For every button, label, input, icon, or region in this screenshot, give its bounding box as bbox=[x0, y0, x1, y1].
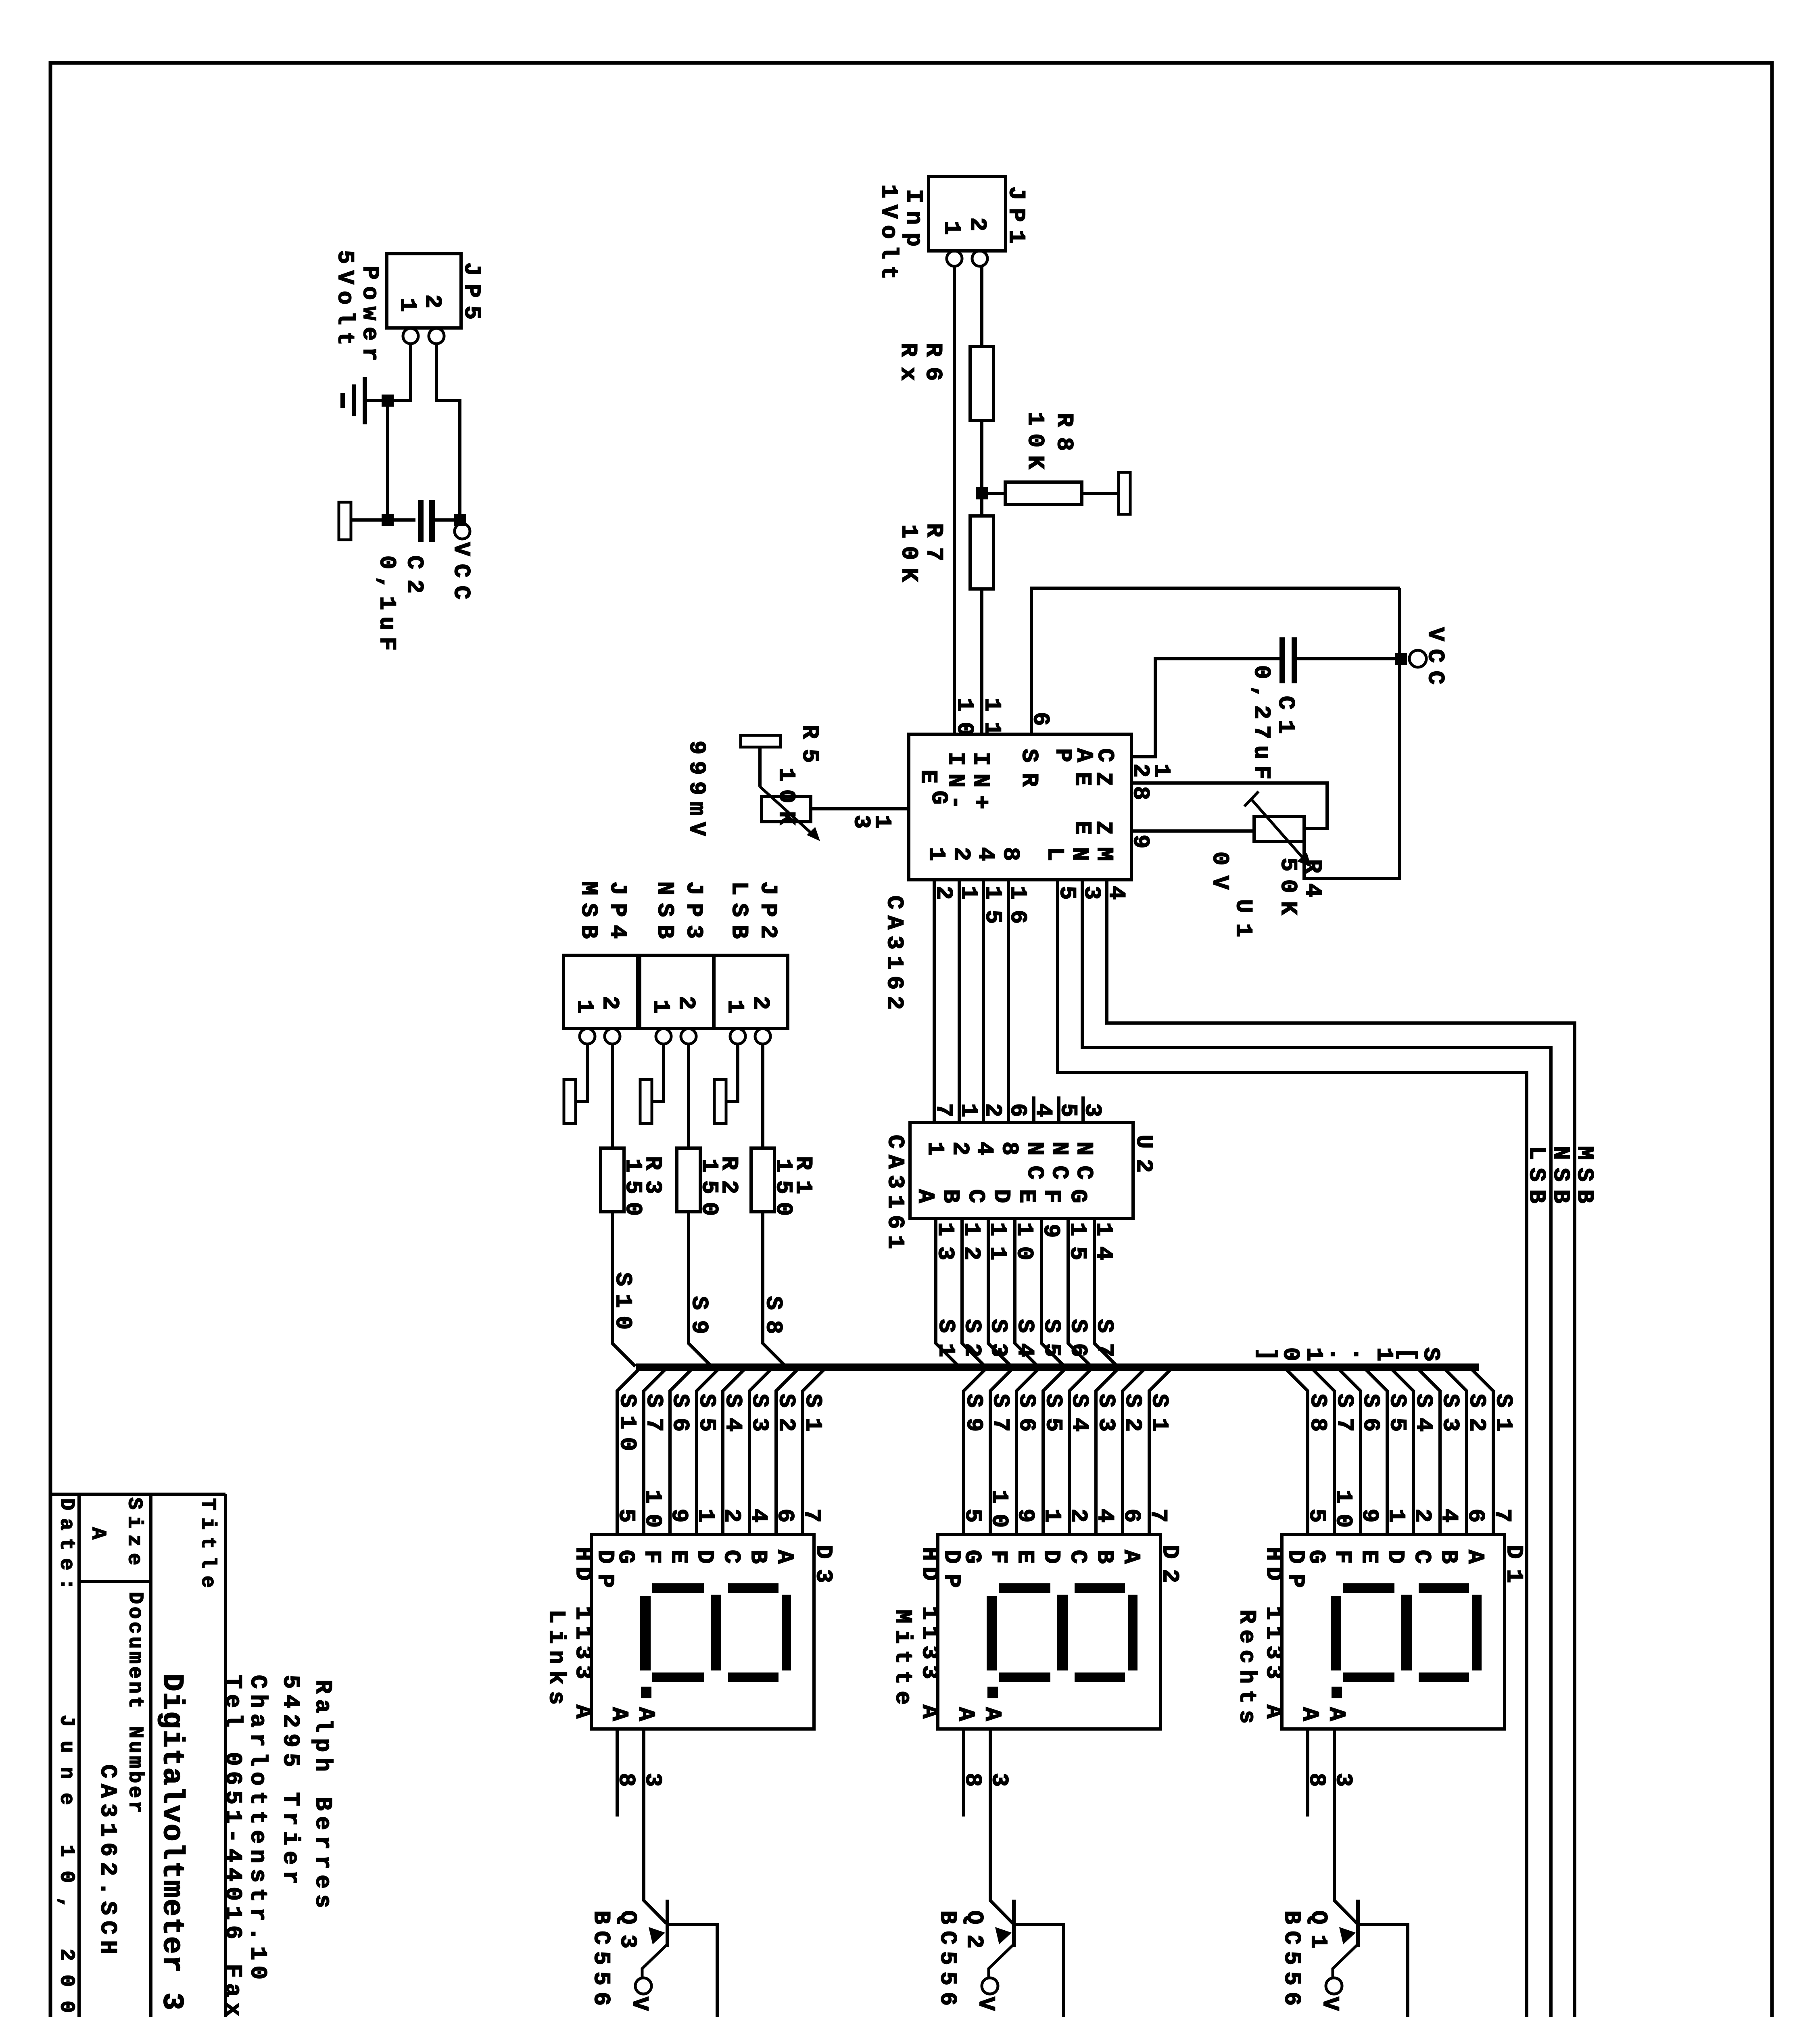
svg-text:6: 6 bbox=[772, 1509, 797, 1522]
svg-text:9: 9 bbox=[1037, 1224, 1063, 1238]
svg-text:4: 4 bbox=[1030, 1103, 1056, 1117]
wire U2 pin 3 NC stub bbox=[1081, 1096, 1085, 1123]
svg-text:3: 3 bbox=[1079, 1103, 1105, 1117]
svg-text:9: 9 bbox=[1127, 835, 1153, 848]
potentiometer R4 50K bbox=[1244, 791, 1325, 915]
label Q2 BC556 bbox=[934, 1911, 987, 2006]
svg-text:10K: 10K bbox=[773, 768, 799, 825]
svg-text:C: C bbox=[962, 1189, 988, 1203]
svg-text:JP4: JP4 bbox=[604, 881, 630, 939]
power VCC bbox=[448, 524, 474, 599]
junction R7 R8 bbox=[976, 487, 988, 499]
svg-text:B: B bbox=[937, 1189, 963, 1203]
transistor Q2 BC556 bbox=[982, 1900, 1064, 2017]
svg-text:5: 5 bbox=[613, 1509, 639, 1522]
wire U2 pin 11 net S3 to bus bbox=[988, 1219, 1011, 1366]
connector JP5 bbox=[387, 254, 484, 344]
wire U2 pin 15 net S6 to bus bbox=[1068, 1219, 1091, 1366]
svg-text:0: 0 bbox=[1277, 1347, 1303, 1361]
svg-text:5: 5 bbox=[1303, 1509, 1329, 1522]
svg-text:150: 150 bbox=[770, 1159, 796, 1216]
label Q3 BC556 bbox=[588, 1911, 640, 2006]
wire S7 bus to D1 pin 10 bbox=[1311, 1368, 1334, 1535]
svg-text:1: 1 bbox=[1039, 1509, 1064, 1522]
svg-text:E: E bbox=[665, 1550, 691, 1564]
wire S4 bus to D2 pin 2 bbox=[1069, 1368, 1092, 1535]
wire S10 bus to D3 pin 5 bbox=[617, 1368, 640, 1535]
svg-text:B: B bbox=[1435, 1550, 1461, 1564]
svg-text:A: A bbox=[606, 1707, 632, 1721]
svg-text:2: 2 bbox=[1127, 764, 1153, 777]
svg-text:.: . bbox=[1347, 1347, 1373, 1361]
label Q1 BC556 bbox=[1278, 1911, 1331, 2006]
capacitor C2 0,1uF bbox=[374, 500, 460, 651]
svg-text:JP5: JP5 bbox=[458, 262, 484, 319]
svg-text:1: 1 bbox=[692, 1509, 718, 1522]
wire U1 pin 13 to R5 bbox=[811, 807, 909, 810]
svg-text:C: C bbox=[1064, 1550, 1090, 1564]
svg-text:1: 1 bbox=[571, 1000, 597, 1013]
resistor R6 Rx bbox=[895, 343, 993, 420]
wire JP1 pin2 to R6 bbox=[980, 266, 983, 347]
svg-text:D: D bbox=[1382, 1550, 1408, 1564]
wire S3 bus to D2 pin 4 bbox=[1096, 1368, 1119, 1535]
wire JP5 pin2 to VCC node bbox=[436, 344, 460, 520]
svg-text:]: ] bbox=[1254, 1347, 1279, 1361]
wire U2 pin 5 NC stub bbox=[1057, 1096, 1060, 1123]
svg-text:Document Number: Document Number bbox=[123, 1592, 146, 1813]
svg-text:M: M bbox=[1091, 847, 1117, 861]
wire U1 pin 8 to R4 wiper bbox=[1131, 783, 1327, 829]
wire U2 pin 12 net S2 to bus bbox=[962, 1219, 985, 1366]
connector JP3 bbox=[640, 955, 714, 1044]
wire S4 bus to D3 pin 2 bbox=[723, 1368, 746, 1535]
svg-text:7: 7 bbox=[930, 1103, 956, 1117]
svg-text:9: 9 bbox=[666, 1509, 691, 1522]
svg-text:HD 1133 A: HD 1133 A bbox=[1260, 1547, 1286, 1719]
label JP3 NSB bbox=[651, 881, 706, 939]
op-amp U1 CA3162 A/D converter bbox=[909, 734, 1131, 880]
wire JP1 pin1 to U1 pin 10 bbox=[953, 266, 956, 734]
wire U2 pin 14 net S7 to bus bbox=[1094, 1219, 1117, 1366]
svg-text:B: B bbox=[1091, 1550, 1117, 1564]
resistor R8 10K bbox=[982, 412, 1119, 505]
display D1 HD 1133 A bbox=[1282, 1535, 1505, 1729]
svg-text:8: 8 bbox=[1303, 1773, 1329, 1787]
wire BCD 2 U1 pin1 to U2 pin1 bbox=[958, 880, 961, 1123]
svg-text:A: A bbox=[912, 1189, 938, 1203]
svg-text:1: 1 bbox=[1300, 1347, 1326, 1361]
svg-text:2: 2 bbox=[1409, 1509, 1435, 1522]
wire JP5 pin1 to ground node bbox=[388, 344, 411, 401]
svg-text:JP2: JP2 bbox=[755, 881, 781, 939]
resistor R3 150 bbox=[601, 1148, 665, 1216]
svg-text:VCC: VCC bbox=[1422, 627, 1448, 685]
transistor Q3 BC556 bbox=[635, 1900, 717, 2017]
display D3 HD 1133 A bbox=[591, 1535, 814, 1729]
ground bbox=[340, 377, 388, 424]
label Power 5Volt bbox=[332, 250, 382, 361]
terminal stub JP4 bbox=[564, 1079, 576, 1123]
svg-text:VCC: VCC bbox=[448, 542, 474, 599]
resistor R7 10K bbox=[895, 516, 993, 589]
svg-text:MSB: MSB bbox=[575, 881, 601, 939]
svg-text:6: 6 bbox=[1027, 712, 1053, 726]
svg-text:NSB: NSB bbox=[651, 881, 677, 939]
svg-text:F: F bbox=[985, 1550, 1011, 1564]
svg-text:2: 2 bbox=[1065, 1509, 1091, 1522]
svg-text:10K: 10K bbox=[895, 524, 921, 582]
potentiometer R5 10K bbox=[760, 725, 822, 841]
wire JP3 pin1 to stub bbox=[652, 1044, 664, 1102]
svg-text:.: . bbox=[1324, 1347, 1350, 1361]
svg-text:150: 150 bbox=[696, 1159, 722, 1216]
wire NSB net U1 pin3 to Q2 base bbox=[1064, 880, 1551, 2017]
svg-text:1: 1 bbox=[1383, 1509, 1409, 1522]
wire MSB net U1 pin4 to Q3 base bbox=[717, 880, 1575, 2017]
svg-text:B: B bbox=[745, 1550, 770, 1564]
wire R7 to U1 pin 11 bbox=[980, 589, 983, 734]
wire S9 bus to D2 pin 5 bbox=[964, 1368, 987, 1535]
svg-text:A: A bbox=[86, 1527, 109, 1539]
svg-text:S10: S10 bbox=[609, 1272, 635, 1330]
svg-text:150: 150 bbox=[620, 1159, 645, 1216]
wire JP4 pin2 to R3 bbox=[611, 1044, 614, 1148]
terminal stub power bbox=[339, 502, 388, 540]
wire S1 bus to D2 pin 7 bbox=[1149, 1368, 1172, 1535]
svg-text:2: 2 bbox=[718, 1509, 744, 1522]
svg-text:NSB: NSB bbox=[1547, 1146, 1573, 1203]
wire JP2 pin2 to R1 bbox=[761, 1044, 764, 1148]
wire S1 bus to D3 pin 7 bbox=[803, 1368, 826, 1535]
wire U1 pin 12 to C1 bbox=[1131, 659, 1279, 757]
svg-text:LSB: LSB bbox=[1523, 1146, 1549, 1203]
wire segment bus bbox=[636, 1363, 1479, 1371]
wire D1 pin 8 stub bbox=[1306, 1729, 1309, 1817]
svg-text:4: 4 bbox=[972, 847, 998, 861]
wire U2 pin 10 net S4 to bus bbox=[1015, 1219, 1038, 1366]
svg-text:C: C bbox=[1409, 1550, 1434, 1564]
wire LSB net U1 pin5 to Q1 base bbox=[1058, 880, 1527, 2017]
svg-text:F: F bbox=[1329, 1550, 1355, 1564]
svg-text:3: 3 bbox=[639, 1773, 665, 1787]
transistor Q1 BC556 bbox=[1326, 1900, 1408, 2017]
svg-text:1: 1 bbox=[938, 221, 964, 235]
svg-text:D: D bbox=[988, 1189, 1014, 1203]
svg-text:3: 3 bbox=[1330, 1773, 1356, 1787]
wire JP4 pin1 to stub bbox=[576, 1044, 587, 1102]
svg-text:F: F bbox=[1038, 1189, 1064, 1203]
note address block bbox=[219, 1675, 335, 2017]
wire S5 bus to D1 pin 1 bbox=[1364, 1368, 1387, 1535]
wire S2 bus to D3 pin 6 bbox=[776, 1368, 799, 1535]
wire U2 pin 9 net S5 to bus bbox=[1041, 1219, 1064, 1366]
svg-text:G: G bbox=[925, 791, 951, 804]
terminal stub R5 wiper bbox=[741, 735, 781, 787]
wire S3 bus to D3 pin 4 bbox=[749, 1368, 772, 1535]
wire BCD 1 U1 pin2 to U2 pin7 bbox=[933, 880, 936, 1123]
svg-text:HD 1133 A: HD 1133 A bbox=[916, 1547, 942, 1719]
svg-text:[: [ bbox=[1394, 1347, 1420, 1361]
svg-text:L: L bbox=[1041, 847, 1067, 861]
svg-text:P: P bbox=[1050, 748, 1075, 762]
svg-text:Digitalvoltmeter 3 Stellig: Digitalvoltmeter 3 Stellig bbox=[155, 1674, 188, 2017]
wire S6 bus to D1 pin 9 bbox=[1338, 1368, 1361, 1535]
svg-text:A: A bbox=[1118, 1550, 1144, 1564]
capacitor C1 0,27uF bbox=[1248, 637, 1298, 779]
svg-text:A: A bbox=[1296, 1707, 1322, 1721]
svg-text:C: C bbox=[718, 1550, 744, 1564]
svg-text:D: D bbox=[691, 1550, 717, 1564]
svg-text:E: E bbox=[915, 770, 941, 783]
svg-text:E: E bbox=[1356, 1550, 1382, 1564]
wire R6 to junction bbox=[980, 420, 983, 516]
wire D3 pin 3 to Q3 collector bbox=[644, 1729, 666, 1923]
wire ground node to C2 bbox=[388, 401, 415, 520]
svg-text:LSB: LSB bbox=[726, 881, 751, 939]
svg-text:5: 5 bbox=[959, 1509, 985, 1522]
decimal point D3 bbox=[641, 1687, 651, 1698]
svg-text:8: 8 bbox=[613, 1773, 639, 1787]
decimal point D1 bbox=[1332, 1687, 1342, 1698]
svg-text:4: 4 bbox=[971, 1142, 997, 1155]
svg-text:1: 1 bbox=[394, 298, 420, 312]
svg-text:6: 6 bbox=[1118, 1509, 1144, 1522]
wire BCD 8 U1 pin16 to U2 pin6 bbox=[1007, 880, 1010, 1123]
wire S6 bus to D3 pin 9 bbox=[670, 1368, 693, 1535]
svg-text:50K: 50K bbox=[1275, 858, 1300, 915]
wire U2 pin 4 NC stub bbox=[1032, 1096, 1035, 1123]
svg-text:8: 8 bbox=[996, 1142, 1022, 1155]
svg-text:7: 7 bbox=[1489, 1509, 1515, 1522]
svg-text:2: 2 bbox=[597, 996, 622, 1010]
junction VCC power bbox=[454, 514, 466, 526]
terminal stub JP3 bbox=[640, 1079, 652, 1123]
svg-text:2: 2 bbox=[947, 1142, 973, 1155]
svg-text:MSB: MSB bbox=[1571, 1146, 1597, 1203]
svg-text:8: 8 bbox=[1127, 786, 1153, 800]
wire D2 pin 8 stub bbox=[962, 1729, 965, 1817]
wire D1 pin 3 to Q1 collector bbox=[1334, 1729, 1357, 1923]
title block frame bbox=[50, 1494, 225, 2017]
wire R3 net S10 to bus bbox=[612, 1212, 635, 1366]
wire S7 bus to D2 pin 10 bbox=[990, 1368, 1013, 1535]
svg-text:2: 2 bbox=[979, 1103, 1005, 1117]
svg-text:1: 1 bbox=[647, 1000, 673, 1013]
wire S5 bus to D2 pin 1 bbox=[1043, 1368, 1066, 1535]
wire S8 bus to D1 pin 5 bbox=[1285, 1368, 1308, 1535]
svg-text:E: E bbox=[1069, 772, 1095, 786]
wire S6 bus to D2 pin 9 bbox=[1016, 1368, 1039, 1535]
svg-text:A: A bbox=[952, 1707, 978, 1721]
wire S4 bus to D1 pin 2 bbox=[1390, 1368, 1413, 1535]
svg-text:1: 1 bbox=[722, 1000, 747, 1013]
svg-text:9: 9 bbox=[1356, 1509, 1382, 1522]
wire S2 bus to D2 pin 6 bbox=[1123, 1368, 1146, 1535]
seven segment digit D1 bbox=[1331, 1583, 1482, 1682]
svg-text:2: 2 bbox=[948, 847, 974, 861]
svg-text:A: A bbox=[632, 1707, 658, 1721]
label JP4 MSB bbox=[575, 881, 630, 939]
wire S1 bus to D1 pin 7 bbox=[1470, 1368, 1493, 1535]
junction C2 left bbox=[382, 514, 394, 526]
junction VCC rail bbox=[1395, 653, 1407, 665]
svg-text:2: 2 bbox=[419, 294, 445, 308]
wire JP3 pin2 to R2 bbox=[687, 1044, 690, 1148]
svg-text:4: 4 bbox=[1092, 1509, 1117, 1522]
svg-text:4: 4 bbox=[745, 1509, 771, 1522]
seven segment digit D2 bbox=[987, 1583, 1137, 1682]
wire C1 to VCC rail bbox=[1297, 657, 1400, 660]
svg-text:5: 5 bbox=[1055, 1103, 1081, 1117]
svg-text:3: 3 bbox=[848, 815, 874, 829]
terminal stub JP2 bbox=[714, 1079, 726, 1123]
svg-text:A: A bbox=[1462, 1550, 1488, 1564]
wire JP2 pin1 to stub bbox=[726, 1044, 738, 1102]
svg-text:S: S bbox=[1417, 1347, 1443, 1361]
svg-text:E: E bbox=[1013, 1189, 1039, 1203]
display D2 HD 1133 A bbox=[938, 1535, 1160, 1729]
svg-text:8: 8 bbox=[959, 1773, 985, 1787]
wire U1 pin 6 SR riser bbox=[1031, 588, 1400, 734]
svg-text:1: 1 bbox=[1371, 1347, 1396, 1361]
wire S2 bus to D1 pin 6 bbox=[1444, 1368, 1467, 1535]
svg-text:8: 8 bbox=[997, 847, 1023, 861]
connector JP1 bbox=[929, 177, 1029, 266]
seven segment digit D3 bbox=[640, 1583, 791, 1682]
connector JP2 bbox=[714, 955, 788, 1044]
wire U2 pin 13 net S1 to bus bbox=[936, 1219, 959, 1366]
svg-text:9: 9 bbox=[1012, 1509, 1038, 1522]
wire S5 bus to D3 pin 1 bbox=[697, 1368, 720, 1535]
wire S3 bus to D1 pin 4 bbox=[1417, 1368, 1440, 1535]
svg-text:2: 2 bbox=[964, 217, 990, 231]
wire R1 net S8 to bus bbox=[763, 1212, 786, 1366]
svg-text:2: 2 bbox=[673, 996, 699, 1010]
op-amp U2 CA3161 BCD decoder bbox=[910, 1123, 1133, 1219]
wire S7 bus to D3 pin 10 bbox=[644, 1368, 667, 1535]
svg-text:E: E bbox=[1012, 1550, 1037, 1564]
svg-text:E: E bbox=[1069, 821, 1095, 835]
svg-text:7: 7 bbox=[798, 1509, 824, 1522]
svg-text:Inp: Inp bbox=[900, 189, 926, 246]
svg-text:S10: S10 bbox=[614, 1394, 640, 1451]
resistor R2 150 bbox=[677, 1148, 741, 1216]
svg-text:10K: 10K bbox=[1022, 412, 1048, 470]
wire D3 pin 8 stub bbox=[616, 1729, 619, 1817]
wire D2 pin 3 to Q2 collector bbox=[990, 1729, 1013, 1923]
svg-text:3: 3 bbox=[986, 1773, 1012, 1787]
svg-text:A: A bbox=[1323, 1707, 1349, 1721]
junction ground node bbox=[382, 395, 394, 407]
svg-text:A: A bbox=[771, 1550, 797, 1564]
svg-text:HD 1133 A: HD 1133 A bbox=[570, 1547, 595, 1719]
VCC rail bbox=[1304, 588, 1400, 879]
svg-text:6: 6 bbox=[1004, 1103, 1030, 1117]
svg-text:1: 1 bbox=[922, 1142, 948, 1155]
svg-text:2: 2 bbox=[747, 996, 773, 1010]
svg-text:6: 6 bbox=[1462, 1509, 1488, 1522]
power VCC rail bbox=[1409, 627, 1448, 685]
decimal point D2 bbox=[987, 1687, 998, 1698]
svg-text:54295 Trier: 54295 Trier bbox=[277, 1675, 303, 1884]
svg-text:F: F bbox=[639, 1550, 664, 1564]
wire R2 net S9 to bus bbox=[689, 1212, 712, 1366]
svg-text:7: 7 bbox=[1145, 1509, 1171, 1522]
svg-text:JP1: JP1 bbox=[1003, 186, 1029, 244]
terminal stub R8 bbox=[1119, 472, 1130, 514]
svg-text:G: G bbox=[1064, 1189, 1090, 1203]
resistor R1 150 bbox=[751, 1148, 816, 1216]
svg-text:N: N bbox=[1066, 847, 1092, 861]
svg-text:1: 1 bbox=[955, 1103, 981, 1117]
connector JP4 bbox=[564, 955, 637, 1044]
svg-text:IN+: IN+ bbox=[967, 752, 993, 809]
svg-text:A: A bbox=[979, 1707, 1005, 1721]
svg-text:1: 1 bbox=[923, 847, 949, 861]
label JP2 LSB bbox=[726, 881, 781, 939]
wire U1 pin 9 to R4 bbox=[1131, 829, 1254, 833]
wire BCD 4 U1 pin15 to U2 pin2 bbox=[982, 880, 985, 1123]
svg-text:D: D bbox=[1038, 1550, 1064, 1564]
label Inp 1Volt bbox=[875, 184, 926, 280]
svg-text:JP3: JP3 bbox=[680, 881, 706, 939]
svg-text:4: 4 bbox=[1436, 1509, 1461, 1522]
